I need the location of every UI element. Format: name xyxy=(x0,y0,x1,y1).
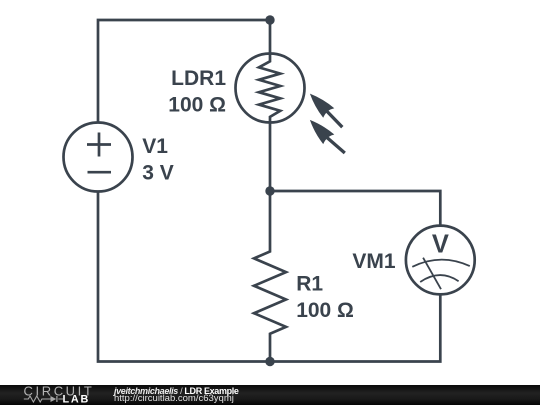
svg-text:V1: V1 xyxy=(142,135,168,158)
svg-text:LDR1: LDR1 xyxy=(171,67,226,90)
svg-text:LAB: LAB xyxy=(63,393,91,405)
svg-text:100 Ω: 100 Ω xyxy=(296,299,354,322)
svg-text:3 V: 3 V xyxy=(142,162,174,185)
svg-text:100 Ω: 100 Ω xyxy=(168,93,226,116)
svg-text:VM1: VM1 xyxy=(352,250,396,273)
svg-text:V: V xyxy=(432,230,449,258)
svg-text:R1: R1 xyxy=(296,273,323,296)
